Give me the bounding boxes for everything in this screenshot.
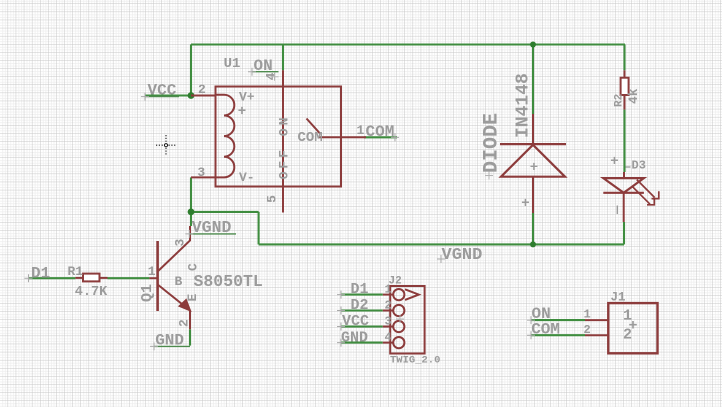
connector J2 pin 1 stub [383, 294, 394, 296]
svg-text:VCC: VCC [342, 313, 369, 330]
transistor Q1 collector [158, 226, 190, 272]
net label ON (relay pin4) [248, 57, 279, 81]
LED D3 emission arrow 1 [637, 180, 659, 199]
svg-text:B: B [175, 274, 183, 289]
net label D1 (input) [25, 264, 51, 282]
wire VGND mid horizontal [191, 211, 259, 213]
resistor R1 stub right [100, 277, 108, 279]
wire net COM to J1 [531, 334, 585, 336]
connector J2 box [390, 286, 424, 354]
svg-text:S8050TL: S8050TL [194, 272, 263, 291]
resistor R1 stub left [75, 277, 83, 279]
wire VCC label stub [145, 94, 191, 96]
LED D3 name tick [626, 166, 631, 168]
net label D1 (J2) [337, 281, 369, 298]
net label COM (relay pin1) [366, 123, 400, 141]
relay U1 pin 4/5 slider line [282, 70, 284, 212]
svg-text:1: 1 [385, 282, 392, 296]
svg-text:Q1: Q1 [139, 284, 156, 302]
svg-text:2: 2 [177, 319, 192, 327]
connector J1 pin 1 stub [585, 319, 608, 321]
svg-text:2: 2 [584, 323, 591, 337]
svg-text:3: 3 [385, 314, 392, 328]
net label VCC [141, 81, 179, 100]
svg-text:D1: D1 [31, 264, 50, 282]
svg-text:D3: D3 [632, 159, 646, 173]
resistor R2 body [621, 78, 629, 95]
net label COM (J1) [527, 320, 560, 339]
LED D3 pin bottom [623, 193, 625, 222]
wire VGND drop [258, 212, 260, 245]
svg-text:4.7K: 4.7K [75, 285, 108, 300]
svg-text:TWIG_2.0: TWIG_2.0 [390, 355, 440, 367]
svg-text:4k: 4k [626, 88, 641, 104]
svg-text:VGND: VGND [442, 246, 483, 265]
wire net VCC to J2 [341, 325, 383, 327]
relay U1 coil [216, 95, 235, 178]
wire D1 input [29, 277, 76, 279]
svg-text:R2: R2 [614, 94, 626, 107]
junction diode bottom [530, 241, 536, 247]
svg-text:+: + [238, 104, 246, 120]
junction VGND mid [188, 209, 195, 216]
wire LED to rail [623, 222, 625, 244]
resistor R1 body [83, 274, 100, 282]
LED D3 cathode bar [603, 192, 644, 194]
net label VCC (J2) [337, 313, 369, 330]
transistor Q1 base bar [156, 241, 159, 311]
wire net D1 to J2 [341, 294, 383, 296]
svg-text:V+: V+ [239, 90, 255, 105]
connector J2 pin 3 stub [383, 326, 394, 328]
svg-text:1: 1 [357, 123, 365, 138]
transistor Q1 emitter arrow [179, 299, 191, 311]
wire COM label stub [364, 136, 397, 138]
svg-text:2: 2 [198, 82, 206, 97]
resistor R2 stub top [624, 70, 626, 77]
diode pin top [532, 114, 534, 144]
connector J2 pad circle 1 [393, 289, 404, 300]
wire net ON to J1 [531, 319, 585, 321]
svg-text:COM: COM [298, 130, 323, 146]
svg-text:V-: V- [239, 170, 255, 185]
svg-text:D2: D2 [351, 297, 369, 314]
net label VGND (bottom rail) [437, 246, 482, 265]
connector J2 pad circle 2 [393, 305, 404, 316]
svg-text:3: 3 [197, 165, 205, 180]
wire R2 to LED [623, 110, 625, 172]
svg-text:E: E [185, 294, 200, 302]
net label GND (J2) [337, 329, 368, 346]
svg-text:J1: J1 [611, 291, 626, 305]
svg-text:COM: COM [366, 123, 395, 141]
wire diode top [532, 45, 534, 115]
svg-text:R1: R1 [68, 264, 84, 279]
connector J1 box [608, 303, 657, 353]
diode label origin cross [485, 172, 493, 180]
wire top rail VCC [191, 43, 625, 45]
svg-text:+: + [521, 196, 529, 212]
wire net GND to J2 [341, 342, 383, 344]
diode triangle [501, 145, 565, 177]
net label VGND (mid) [185, 218, 236, 238]
diode pin bottom [532, 177, 534, 213]
net label D2 (J2) [337, 297, 369, 314]
wire R1 to Q1 base [108, 277, 150, 279]
svg-text:+: + [610, 154, 618, 170]
junction diode top [530, 42, 536, 48]
wire bottom VGND rail [259, 243, 624, 245]
svg-text:2: 2 [385, 298, 392, 312]
wire diode bottom [532, 213, 534, 244]
transistor Q1 base pin [149, 277, 157, 279]
svg-text:+: + [530, 160, 538, 176]
wire R2 top [623, 45, 625, 71]
transistor Q1 emitter [158, 285, 190, 330]
connector J1 pin 2 stub [585, 334, 608, 336]
connector J2 pin 4 stub [383, 342, 394, 344]
wire Q1 emitter to GND [189, 329, 191, 345]
wire left drop to VCC junction [190, 45, 192, 96]
svg-text:4: 4 [385, 330, 392, 344]
cursor crosshair [156, 135, 176, 156]
svg-text:2: 2 [623, 327, 632, 344]
svg-text:U1: U1 [224, 56, 241, 72]
svg-text:OFF ON: OFF ON [277, 115, 292, 180]
svg-text:IN4148: IN4148 [514, 73, 534, 138]
connector J2 origin cross [396, 315, 404, 323]
connector J2 pin 2 stub [383, 310, 394, 312]
LED D3 minus label (rotated) [616, 206, 618, 215]
svg-text:DIODE: DIODE [481, 113, 504, 173]
connector J2 pad circle 3 [393, 321, 404, 332]
LED D3 pin top [623, 172, 625, 178]
relay U1 pin 3 [191, 176, 216, 178]
svg-text:1: 1 [148, 264, 156, 279]
LED D3 emission arrow 2 [632, 186, 654, 205]
connector J2 pad circle 4 [393, 337, 404, 348]
net label ON (J1) [527, 305, 551, 324]
svg-text:3: 3 [173, 239, 188, 247]
wire ON to relay pin4 [282, 45, 284, 71]
relay U1 pin 2 [191, 95, 216, 97]
svg-text:C: C [186, 263, 201, 271]
diode cathode bar [500, 143, 566, 145]
relay U1 switch contact + pin 1 [319, 136, 367, 138]
wire relay pin3 drop [190, 177, 192, 226]
svg-text:D1: D1 [351, 281, 369, 298]
LED D3 triangle [603, 178, 644, 193]
svg-text:5: 5 [265, 195, 280, 203]
svg-text:GND: GND [341, 329, 368, 346]
wire net D2 to J2 [341, 309, 383, 311]
connector J2 pin1 arrow [405, 289, 419, 300]
relay U1 switch lever [307, 119, 321, 134]
junction VCC [188, 92, 195, 99]
net label GND (Q1 emitter) [150, 332, 190, 351]
relay U1 box [216, 87, 342, 187]
svg-text:COM: COM [531, 320, 560, 338]
svg-text:1: 1 [584, 308, 591, 322]
resistor R2 stub bottom [624, 95, 626, 110]
